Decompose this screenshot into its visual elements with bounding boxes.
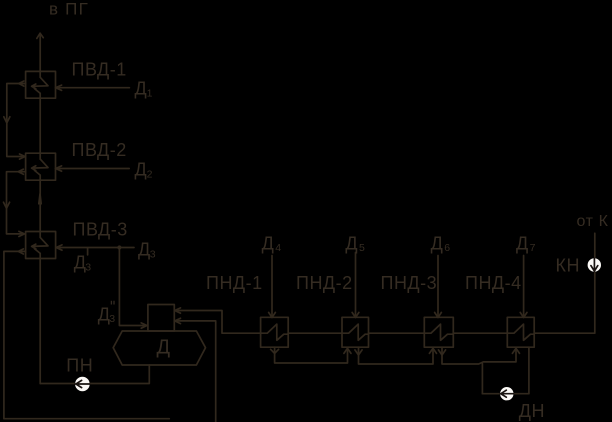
heater ПНД-4 box [507,317,534,347]
svg-text:ПВД-1: ПВД-1 [72,59,127,79]
arrow: Д6 steam into ПНД-3 top [435,312,442,317]
heater ПВД-1 internal coil zigzag [32,77,48,93]
heater ПВД-2 internal coil zigzag [32,159,48,175]
heater ПНД-2 box [342,317,369,347]
heater ПНД-1 box [261,317,289,347]
svg-text:6: 6 [444,242,450,254]
svg-text:2: 2 [147,169,153,181]
wire: steam Д7 down into ПНД-4 [523,256,525,318]
arrow: Д5 steam into ПНД-2 top [352,312,359,317]
arrow: drain leaving ПВД-1 (left) [19,81,24,86]
wire: ПВД-2 drain to ПВД-3 [7,172,26,234]
arrow: narrow up arrow on feedwater line between ПВД-2 and ПВД-3 [39,194,41,204]
arrow: Д4 steam into ПНД-1 top [269,312,276,317]
pump ПН (feed pump) white circle [75,377,90,392]
wire: ПНД-1 drain down and right to ПНД-2 [275,347,348,363]
svg-text:ПВД-3: ПВД-3 [73,220,128,240]
wire: ПНД-3 drain down and right towards ПНД-4 with jog [442,347,516,364]
arrow: Д1 steam into ПВД-1 [56,85,62,90]
svg-text:3: 3 [109,313,115,325]
arrow: condensate into deaerator column upper inlet [175,308,181,313]
arrow: drain up into ПНД-2 bottom [344,348,351,353]
svg-text:Д: Д [516,233,529,253]
svg-text:5: 5 [359,242,365,254]
svg-text:ПНД-2: ПНД-2 [296,273,353,293]
wire: junction down to ДН pump line [481,364,483,394]
arrow: into deaerator column lower inlet [175,318,181,323]
arrow: drain into ПВД-2 (right) [20,154,26,159]
heater ПНД-2 internal coil zigzag [342,324,369,340]
heater ПНД-1 internal coil zigzag [261,324,289,340]
svg-text:от К: от К [577,213,609,230]
wire: steam Д5 down into ПНД-2 [355,253,357,318]
node: junction dot on Д3 line [117,245,121,249]
svg-text:7: 7 [530,242,536,254]
svg-text:Д: Д [262,233,275,253]
wire: condensate main between ПНД-3 and ПНД-4 [453,332,507,334]
svg-text:Д: Д [157,337,171,359]
svg-text:1: 1 [147,88,153,100]
svg-text:3: 3 [150,248,156,260]
tick mark on Д3 line (Д3 prime) [87,248,89,255]
wire: steam Д4 down into ПНД-1 [271,256,273,318]
heater ПВД-1 box [26,71,56,98]
deaerator tank Д [113,331,205,365]
svg-text:ПН: ПН [66,356,93,376]
arrow: drain up into ПНД-3 bottom [429,348,436,353]
wire: condensate main from ПНД-1 up into deaerator column [175,311,261,334]
pump КН (condensate pump) white circle [588,258,601,271]
arrow: drain down on x=6.5 [4,202,10,208]
svg-text:ПНД-4: ПНД-4 [465,273,522,293]
heater ПНД-3 internal coil zigzag [424,324,453,340]
deaerator column (head) [148,305,174,332]
wire: condensate main between ПНД-1 and ПНД-2 [288,332,342,334]
arrow: drain leaving ПВД-2 (left) [18,169,23,174]
wire: steam extraction Д2 line to ПВД-2 [56,168,130,170]
svg-text:ПНД-3: ПНД-3 [381,273,438,293]
arrow: Д3'' into deaerator column [141,323,147,328]
double prime marks of Д3'' [111,301,114,305]
arrow: Д3 steam into ПВД-3 [56,245,62,250]
svg-text:4: 4 [275,242,281,254]
arrow: drain down on x=6.8 [4,117,10,123]
arrow: drain leaving ПВД-3 (left) [18,249,23,254]
heater ПНД-4 internal coil zigzag [507,324,534,340]
heater ПВД-2 box [26,153,56,180]
svg-text:Д: Д [135,160,148,180]
wire: condensate main from КН pump down and left to ПНД-4 [534,233,595,333]
wire: steam extraction Д1 line to ПВД-1 [56,87,130,89]
wire: steam Д6 down into ПНД-3 [437,256,439,318]
wire: main feedwater vertical line x=40 (to steam generator) [39,34,41,384]
arrow: drain out of ПНД-2 (down) [355,350,362,355]
heater ПНД-3 box [424,317,453,347]
wire: lower right inlet line of deaerator column [175,321,216,422]
svg-text:Д: Д [135,79,148,99]
wire: ПВД-3 drain down left edge and along bottom [4,251,169,418]
wire: ПНД-2 drain down and right to ПНД-3 [359,347,434,364]
svg-text:в ПГ: в ПГ [49,0,89,19]
svg-text:Д: Д [345,233,358,253]
arrow: drain into ПВД-3 (right) [19,231,25,236]
pump ДН (drain pump) white circle [500,387,513,400]
wire: condensate main between ПНД-2 and ПНД-3 [369,332,425,334]
arrow: feedwater to ПГ (up) at top [37,33,44,38]
svg-text:Д: Д [138,239,151,259]
svg-text:КН: КН [556,256,580,276]
arrow: Д2 steam into ПВД-2 [56,166,62,171]
wire: ДН pump line from ПНД-4 bottom [482,347,529,394]
wire: Д3'' branch down to deaerator column [119,248,146,326]
wire: steam extraction Д3 line to ПВД-3 [56,247,134,249]
svg-text:ПВД-2: ПВД-2 [72,140,127,160]
arrow: Д7 steam into ПНД-4 top [520,312,527,317]
wire: deaerator outlet down to feed pump line [40,365,149,384]
svg-text:ДН: ДН [519,401,545,421]
heater ПВД-3 internal coil zigzag [32,237,48,253]
heater ПВД-3 box [26,232,56,259]
arrow: drain out of ПНД-1 (down) [271,349,279,353]
arrow: drain out of ПНД-3 (down) [438,350,445,355]
svg-text:Д: Д [431,233,444,253]
svg-text:3: 3 [85,261,91,273]
svg-text:ПНД-1: ПНД-1 [206,273,263,293]
wire: ПВД-1 drain to ПВД-2 [7,84,26,157]
arrow: drain up into ПНД-4 bottom [512,348,519,353]
